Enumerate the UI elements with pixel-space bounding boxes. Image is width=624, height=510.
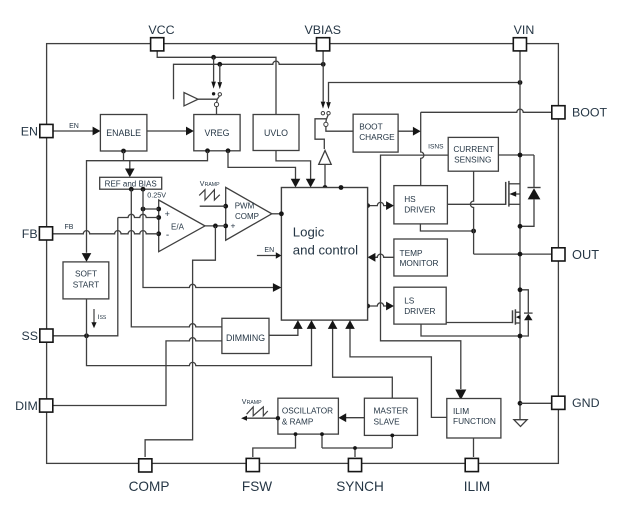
svg-text:+: +: [231, 221, 236, 231]
transistor Q1 high-side MOSFET: [447, 203, 505, 205]
pin FB: [39, 227, 52, 240]
block UVLO: [253, 115, 299, 151]
svg-text:VCC: VCC: [148, 23, 174, 37]
node J23 E/A plus input: [156, 215, 161, 220]
svg-text:RAMP: RAMP: [205, 182, 221, 188]
block LS DRIVER: [394, 287, 446, 324]
wire DIMMING output to logic bottom arrow 1: [269, 328, 298, 335]
wire E/A plus line with hops: [118, 214, 159, 217]
svg-text:MASTER: MASTER: [374, 405, 409, 415]
wire MASTER SLAVE output to logic bottom arrow 3: [333, 328, 393, 398]
comparator U5 PWM COMP: [226, 187, 272, 240]
wire COMP net from E/A output to COMP pin: [145, 226, 215, 457]
svg-text:MONITOR: MONITOR: [400, 258, 439, 268]
svg-text:RAMP: RAMP: [247, 400, 263, 406]
svg-text:E/A: E/A: [171, 222, 185, 231]
node J9 REF bottom left: [129, 187, 134, 192]
wire REF and BIAS feed arrow: [129, 161, 131, 169]
svg-text:PWM: PWM: [235, 201, 255, 210]
node J29 ref branch: [141, 207, 146, 212]
wire ILIM FUNCTION output to logic bottom arrow 4: [350, 328, 447, 417]
node J4 VIN rail junction: [518, 80, 523, 85]
svg-text:FSW: FSW: [242, 479, 272, 494]
wire VBIAS rail to buffer tap and switch S1 contact 2 (hop over UVLO feed): [174, 61, 324, 99]
svg-text:0.25V: 0.25V: [147, 191, 166, 200]
node J13 logic right edge to HS: [365, 203, 370, 208]
wire E/A plus down to SS line: [53, 218, 118, 336]
wire 0.25V reference into E/A top input: [143, 208, 159, 210]
wire REF branch to big logic arrow (hops over bumps): [143, 189, 273, 287]
wire current sensing right to HS drain / diode top: [498, 154, 534, 156]
wire UVLO to logic top arrow 2: [276, 151, 311, 180]
svg-text:VBIAS: VBIAS: [305, 23, 342, 37]
wire VREG to logic top arrow 1: [228, 151, 296, 180]
svg-text:DRIVER: DRIVER: [404, 306, 435, 316]
wire FB pin to E/A minus with hops: [52, 231, 158, 234]
svg-text:UVLO: UVLO: [264, 128, 288, 138]
switch S1 contact 2 from VBIAS: [219, 64, 221, 82]
wire HS DRIVER return to switch node: [420, 224, 473, 231]
node J26 PWM plus input: [223, 224, 228, 229]
node J1 VCC on switch line: [211, 55, 216, 60]
svg-text:CURRENT: CURRENT: [453, 144, 494, 154]
diode D2 low-side body diode: [520, 290, 528, 313]
buffer U3 controlling switch S2 (output loops up to lever): [319, 151, 332, 165]
pin FSW: [246, 458, 259, 471]
node J30 soft start tap on SS line: [84, 333, 89, 338]
op-amp U4 error amplifier E/A: [159, 200, 205, 252]
pin EN: [40, 124, 53, 137]
diode D1 high-side body diode: [533, 155, 535, 188]
wire VBIAS pin drop to switch S2 contact 1: [322, 50, 324, 64]
wire VIN rail to switch S2 contact 2: [329, 83, 521, 103]
wire ground junction to GND pin: [520, 402, 552, 404]
svg-text:EN: EN: [264, 247, 274, 254]
node J6 ENABLE bottom: [121, 149, 126, 154]
svg-text:SYNCH: SYNCH: [336, 479, 384, 494]
svg-text:VREG: VREG: [205, 128, 230, 138]
svg-text:VIN: VIN: [514, 23, 535, 37]
svg-text:SOFT: SOFT: [75, 269, 97, 279]
svg-text:& RAMP: & RAMP: [282, 417, 314, 426]
node J20 power ground junction: [518, 401, 523, 406]
block BOOT CHARGE: [353, 114, 398, 152]
wire EN pin to ENABLE with arrow: [53, 130, 94, 132]
svg-text:COMP: COMP: [235, 212, 259, 221]
node J16 OUT junction: [518, 252, 523, 257]
svg-text:ILIM: ILIM: [464, 479, 490, 494]
svg-text:GND: GND: [572, 396, 600, 410]
node J18 LS drain junction: [518, 287, 523, 292]
svg-text:COMP: COMP: [129, 479, 170, 494]
node J17 logic right edge to LS: [365, 304, 370, 309]
switch S1 contact 1 from VCC: [213, 57, 215, 81]
node J12 drain sense: [518, 153, 523, 158]
wire logic to LS DRIVER arrow (hop over ISNS): [368, 303, 388, 306]
pin BOOT: [552, 106, 565, 119]
wire BOOT vertical to HS DRIVER (hop over ISNS): [421, 112, 424, 185]
node J24 E/A minus input: [156, 231, 161, 236]
svg-text:DRIVER: DRIVER: [404, 205, 435, 215]
block MASTER SLAVE: [364, 398, 417, 435]
svg-text:Logic: Logic: [293, 225, 325, 240]
node J14 HS source junction: [518, 224, 523, 229]
node J21 lone dot on logic top: [339, 185, 344, 190]
outer border frame: [47, 44, 559, 464]
wire ramp into PWM COMP: [200, 205, 226, 207]
pin COMP: [139, 459, 152, 472]
switch S1 lever and pole to VREG: [217, 96, 220, 103]
wire SOFT START bottom through SS to logic bottom arrow 2 (hop over COMP net): [87, 299, 312, 366]
svg-text:CHARGE: CHARGE: [359, 132, 395, 142]
block TEMP MONITOR: [394, 239, 448, 276]
svg-text:BOOT: BOOT: [359, 122, 383, 132]
svg-text:EN: EN: [21, 124, 38, 138]
block CURRENT SENSING: [448, 137, 498, 171]
node J2 VBIAS on switch line: [217, 62, 222, 67]
pin OUT: [552, 248, 565, 261]
block VREG: [194, 115, 240, 151]
svg-text:SENSING: SENSING: [454, 154, 491, 164]
wire switch node to OUT pin: [474, 253, 552, 255]
wire logic to HS DRIVER arrow (hop over ISNS): [368, 202, 388, 205]
pin DIM: [40, 399, 53, 412]
wire TEMP MONITOR to logic arrow (hop over ISNS): [374, 254, 394, 257]
switch S2 lever and pole: [326, 115, 328, 123]
pin SYNCH: [348, 458, 361, 471]
ground symbol: [514, 420, 527, 427]
sawtooth symbol at PWM COMP: [199, 190, 220, 200]
svg-text:and control: and control: [293, 243, 358, 258]
block REF and BIAS: [100, 177, 162, 189]
wire EN arrow into logic: [257, 255, 276, 257]
block Logic and control: [281, 188, 367, 321]
pin SS: [40, 329, 53, 342]
pin VBIAS: [317, 38, 330, 51]
svg-text:+: +: [165, 209, 170, 219]
svg-text:SS: SS: [100, 315, 107, 321]
svg-text:OSCILLATOR: OSCILLATOR: [282, 406, 333, 415]
node J8 VREG bottom right: [226, 148, 231, 153]
svg-text:ISNS: ISNS: [428, 144, 444, 151]
wire ILIM FUNCTION to ILIM pin: [473, 438, 475, 457]
wire DIM pin to DIMMING (hop over COMP net): [53, 338, 222, 406]
node J3 below VBIAS pin: [321, 62, 326, 67]
wire LS DRIVER return to source: [421, 324, 520, 336]
wire VREG output rail to ENABLE / REF / SOFT START: [87, 151, 208, 253]
svg-text:DIMMING: DIMMING: [226, 333, 265, 343]
svg-text:BOOT: BOOT: [572, 106, 608, 120]
transistor Q2 low-side MOSFET: [446, 322, 512, 324]
block ENABLE: [100, 115, 146, 152]
wire VCC stub feeding switch S1 and UVLO: [157, 50, 276, 114]
wire BOOT CHARGE output arrow: [398, 130, 414, 132]
svg-text:TEMP: TEMP: [400, 248, 424, 258]
pin VCC: [151, 38, 164, 51]
wire E/A output to PWM COMP plus: [205, 225, 226, 227]
node J27 COMP takeoff: [213, 224, 218, 229]
wire VRAMP output arrow from oscillator: [247, 417, 278, 419]
node J15 HS return junction: [471, 229, 476, 234]
svg-text:DIM: DIM: [15, 399, 38, 413]
wire MASTER SLAVE to OSCILLATOR arrow: [345, 417, 365, 419]
svg-text:-: -: [166, 230, 169, 241]
node J5 buffer input on logic top: [323, 185, 328, 190]
node J22 E/A ref input: [156, 207, 161, 212]
svg-text:FB: FB: [22, 227, 38, 241]
pin VIN: [513, 38, 526, 51]
buffer U2 controlling switch S1: [184, 93, 198, 106]
wire SYNCH pin to oscillator and master slave: [354, 448, 356, 457]
block SOFT START: [63, 262, 109, 299]
node J28 PWM output at logic edge: [279, 211, 284, 216]
wire BOOT pin line (hop over VIN rail): [421, 109, 552, 112]
wire FSW pin to oscillator: [253, 434, 296, 457]
svg-text:FUNCTION: FUNCTION: [453, 416, 496, 426]
block OSCILLATOR & RAMP: [278, 398, 339, 434]
wire ENABLE to VREG with arrow: [147, 130, 187, 132]
pin ILIM: [465, 458, 478, 471]
svg-text:START: START: [73, 280, 99, 290]
sawtooth symbol at oscillator: [247, 407, 268, 416]
node J25 PWM ramp input: [223, 204, 228, 209]
wire REF branch to DIMMING (hop over COMP net): [131, 189, 222, 327]
svg-text:ENABLE: ENABLE: [106, 128, 141, 138]
block HS DRIVER: [394, 186, 448, 224]
wire current sensing bottom to switch node (hop over gate lead): [470, 171, 473, 231]
arrow Iss annotation: [93, 309, 95, 323]
node J19 LS source junction: [518, 334, 523, 339]
block DIMMING: [222, 318, 269, 353]
wire ISNS from current sensing down to ILIM function: [381, 155, 461, 389]
svg-text:EN: EN: [69, 123, 79, 130]
svg-text:FB: FB: [65, 224, 74, 231]
wire PWM COMP output to logic: [272, 213, 282, 215]
svg-text:SLAVE: SLAVE: [374, 416, 401, 426]
svg-text:ILIM: ILIM: [453, 406, 469, 416]
svg-text:OUT: OUT: [572, 247, 599, 262]
svg-text:SS: SS: [21, 329, 38, 343]
svg-text:HS: HS: [404, 194, 416, 204]
block ILIM FUNCTION: [447, 399, 501, 439]
svg-text:LS: LS: [404, 296, 415, 306]
node J7 VREG bottom left: [205, 148, 210, 153]
wire VIN main rail down right side: [519, 50, 521, 420]
pin GND: [552, 396, 565, 409]
node J10 REF bottom right: [141, 187, 146, 192]
wire buffer U3 input from logic: [324, 164, 326, 187]
